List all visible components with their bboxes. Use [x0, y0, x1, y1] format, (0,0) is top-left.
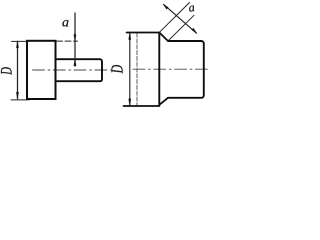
svg-text:a: a: [62, 16, 69, 31]
arrowhead toward ext1 (a right): [163, 4, 168, 9]
extension line 1 at 45deg (a right): [159, 3, 189, 33]
extension dashes of shoulder top edge (a left): [57, 40, 78, 42]
arrowhead down onto shoulder ext (a left): [74, 35, 76, 42]
dimension line a left: [74, 13, 76, 66]
arrowhead down (D right bottom): [129, 99, 131, 106]
svg-text:D: D: [0, 67, 15, 76]
arrowhead toward ext2 (a right): [192, 28, 197, 33]
extension line 2 at 45deg (a right): [168, 15, 194, 40]
arrowhead up (D left top): [16, 41, 18, 48]
flange left face (faint) right figure: [136, 33, 138, 105]
extension line top left: [12, 40, 28, 42]
flange (shoulder) outline left figure: [27, 41, 56, 99]
svg-text:a: a: [188, 0, 196, 15]
flange top edge + extension right figure: [127, 32, 160, 34]
extension line bottom left: [11, 99, 29, 101]
flange bottom edge + extension right figure: [124, 105, 160, 107]
flange right face right figure: [158, 33, 160, 106]
dimension line a right (perpendicular): [164, 4, 197, 33]
svg-text:D: D: [109, 64, 128, 74]
arrowhead up (D right top): [129, 33, 131, 40]
dimension line D left: [17, 41, 19, 98]
shaft outline right figure: [168, 41, 204, 98]
dimension line D right: [129, 33, 131, 106]
centerline right figure: [133, 68, 208, 70]
arrowhead up onto shaft edge (a left): [74, 59, 76, 66]
top chamfer right figure: [159, 33, 168, 42]
arrowhead down (D left bottom): [16, 92, 18, 99]
shaft outline left figure: [56, 59, 103, 81]
centerline left figure: [33, 69, 112, 71]
bottom chamfer right figure: [159, 98, 168, 105]
